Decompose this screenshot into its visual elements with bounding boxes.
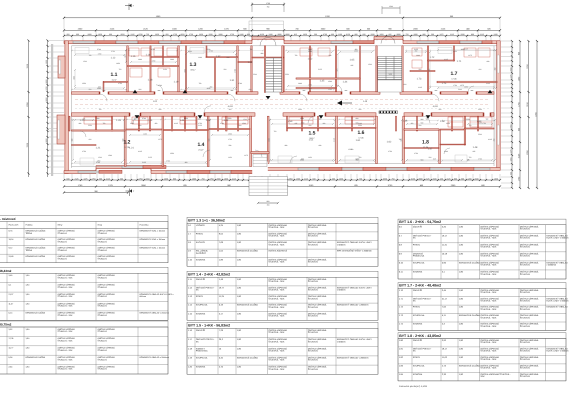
svg-text:ŠTUKOVÁ - SDK: ŠTUKOVÁ - SDK	[268, 297, 285, 300]
svg-text:OMÍTKA VÁPENNÁ ŠTUKOVÁ -: OMÍTKA VÁPENNÁ ŠTUKOVÁ -	[480, 373, 510, 376]
svg-text:900: 900	[173, 177, 176, 180]
svg-text:BYT 1.X - 2+KK - 40,75m2: BYT 1.X - 2+KK - 40,75m2	[0, 323, 12, 327]
svg-text:17,35: 17,35	[451, 78, 457, 81]
svg-text:2750: 2750	[230, 33, 234, 36]
svg-text:2125: 2125	[480, 33, 484, 36]
svg-text:500: 500	[99, 177, 102, 180]
svg-text:KOUPELNA: KOUPELNA	[196, 304, 208, 307]
svg-text:KERAMICKÁ DLAŽBA: KERAMICKÁ DLAŽBA	[237, 357, 259, 360]
svg-text:4125: 4125	[207, 87, 211, 90]
svg-text:1375: 1375	[158, 138, 162, 141]
svg-text:ŠTUKOVÁ - SDK: ŠTUKOVÁ - SDK	[480, 350, 497, 353]
interior wall-hugging dims	[71, 48, 495, 164]
corridor bottom wall	[72, 113, 495, 116]
svg-text:KOMORA: KOMORA	[413, 271, 423, 274]
svg-text:3550: 3550	[478, 108, 482, 111]
svg-text:BYT 1.4 - 2+KK - 42,82m2: BYT 1.4 - 2+KK - 42,82m2	[188, 273, 230, 277]
svg-text:17,35: 17,35	[124, 146, 130, 149]
svg-text:1.6: 1.6	[358, 130, 365, 136]
dimension chain bottom line 2	[63, 184, 501, 188]
dimension chain top line 2	[63, 28, 501, 32]
svg-text:3550: 3550	[88, 124, 92, 127]
svg-text:600: 600	[309, 124, 312, 127]
svg-text:ŠTUKOVÁ - SDK: ŠTUKOVÁ - SDK	[58, 340, 74, 343]
svg-text:ZÁDVEŘÍ: ZÁDVEŘÍ	[413, 339, 422, 342]
svg-text:1.8: 1.8	[422, 140, 429, 146]
svg-text:2750: 2750	[189, 33, 193, 36]
svg-text:2000: 2000	[88, 33, 92, 36]
svg-text:3700: 3700	[97, 48, 101, 51]
svg-text:3000: 3000	[397, 33, 401, 36]
svg-text:SDK: SDK	[480, 375, 485, 378]
svg-text:900: 900	[139, 124, 142, 127]
svg-text:KOMORA: KOMORA	[413, 323, 423, 326]
svg-text:BYT 1.7 - 2+KK - 48,48m2: BYT 1.7 - 2+KK - 48,48m2	[399, 284, 441, 288]
left extension lines	[49, 41, 65, 174]
svg-text:3700: 3700	[139, 33, 143, 36]
svg-text:6,1: 6,1	[9, 284, 12, 287]
svg-text:ŠTUKOVÁ: ŠTUKOVÁ	[98, 232, 108, 235]
svg-text:1375: 1375	[84, 177, 88, 180]
corridor arrow	[337, 101, 342, 106]
interior dimension leader lines	[70, 47, 496, 162]
svg-text:2500: 2500	[461, 33, 465, 36]
svg-text:2750: 2750	[210, 177, 214, 180]
svg-text:3550: 3550	[300, 117, 304, 120]
svg-text:2750: 2750	[151, 48, 155, 51]
svg-text:1.34: 1.34	[343, 81, 348, 84]
svg-text:ŠTUKOVÁ: ŠTUKOVÁ	[308, 243, 319, 246]
dimension chain bottom line 1	[63, 177, 501, 181]
svg-text:450: 450	[440, 177, 443, 180]
svg-text:21,27: 21,27	[198, 149, 204, 152]
svg-text:1,80: 1,80	[26, 293, 30, 296]
svg-text:1375: 1375	[509, 150, 512, 154]
svg-text:SPOLEČNÉ PROSTORY - místností: SPOLEČNÉ PROSTORY - místností	[0, 217, 16, 221]
svg-text:2125: 2125	[142, 161, 146, 164]
svg-text:21,17: 21,17	[442, 297, 448, 300]
svg-text:ŠTUKOVÁ: ŠTUKOVÁ	[520, 367, 531, 370]
windows on top wall	[73, 41, 492, 44]
svg-text:600: 600	[109, 33, 112, 36]
svg-text:2750: 2750	[139, 177, 143, 180]
corridor top wall	[72, 92, 495, 94]
room area sublabels	[111, 69, 457, 152]
svg-text:1.12: 1.12	[111, 57, 116, 60]
svg-text:600: 600	[404, 83, 407, 86]
svg-text:2500: 2500	[371, 33, 375, 36]
svg-text:1,80: 1,80	[26, 302, 30, 305]
svg-text:750: 750	[392, 177, 395, 180]
svg-text:ŠTUKOVÁ - SDK: ŠTUKOVÁ - SDK	[58, 349, 74, 352]
outer wall bottom band	[64, 166, 500, 174]
svg-text:1050: 1050	[308, 156, 312, 159]
bottom extension lines	[64, 174, 500, 179]
svg-text:1.19: 1.19	[174, 81, 179, 84]
door direction triangles	[133, 90, 493, 119]
svg-text:KOUPELNA: KOUPELNA	[413, 365, 425, 368]
svg-text:1500: 1500	[83, 60, 87, 63]
svg-text:ŠTUKOVÁ: ŠTUKOVÁ	[98, 368, 108, 371]
svg-text:600: 600	[331, 33, 334, 36]
svg-text:3000: 3000	[458, 88, 462, 91]
svg-text:1,80: 1,80	[26, 284, 30, 287]
svg-text:ŠTUKOVÁ - SDK: ŠTUKOVÁ - SDK	[58, 295, 74, 298]
dimension bracket entrance bay 2	[382, 5, 400, 14]
svg-text:ŠTUKOVÁ - SDK: ŠTUKOVÁ - SDK	[58, 286, 74, 289]
svg-text:750: 750	[469, 124, 472, 127]
svg-text:17,35: 17,35	[423, 146, 429, 149]
svg-text:ŠTUKOVÁ - SDK: ŠTUKOVÁ - SDK	[480, 237, 497, 240]
svg-text:1.52: 1.52	[308, 58, 313, 61]
svg-text:3700: 3700	[323, 33, 327, 36]
svg-text:KOMORA: KOMORA	[196, 366, 206, 369]
entrance door arcs bay 1	[260, 38, 268, 46]
svg-text:KERAMICKÁ DLAŽBA: KERAMICKÁ DLAŽBA	[459, 262, 481, 265]
svg-text:KERAMICKÝ OBKLAD v 2000mm: KERAMICKÝ OBKLAD v 2000mm	[337, 304, 369, 307]
svg-text:500: 500	[429, 156, 432, 159]
svg-text:ŠTUKOVÁ: ŠTUKOVÁ	[308, 226, 319, 229]
svg-text:1700: 1700	[266, 2, 270, 5]
svg-text:KERAMICKÁ DLAŽBA: KERAMICKÁ DLAŽBA	[459, 314, 481, 317]
svg-text:PRACOVNA: PRACOVNA	[196, 350, 208, 353]
svg-text:ŠTUKOVÁ - SDK: ŠTUKOVÁ - SDK	[268, 315, 285, 318]
svg-text:500: 500	[224, 68, 227, 71]
svg-text:1.7: 1.7	[451, 71, 458, 77]
outer wall top inner face	[72, 45, 498, 47]
interior door arcs	[80, 85, 474, 163]
svg-text:500: 500	[419, 124, 422, 127]
entrance door arcs bay 2	[381, 37, 388, 44]
svg-text:2350: 2350	[339, 177, 343, 180]
svg-text:ŠTUKOVÁ: ŠTUKOVÁ	[98, 295, 108, 298]
corridor dashed ceiling lines	[75, 99, 490, 101]
svg-text:ŠTUKOVÁ: ŠTUKOVÁ	[98, 340, 108, 343]
svg-text:-0,020: -0,020	[227, 105, 234, 108]
svg-text:ŠTUKOVÁ: ŠTUKOVÁ	[308, 359, 319, 362]
svg-text:600: 600	[356, 117, 359, 120]
svg-text:600: 600	[313, 177, 316, 180]
outer wall top band	[64, 37, 500, 44]
svg-text:11,47: 11,47	[111, 79, 117, 82]
level marker bottom	[126, 189, 136, 197]
svg-text:900: 900	[421, 159, 424, 162]
svg-text:ŠTUKOVÁ: ŠTUKOVÁ	[308, 368, 319, 371]
svg-text:750: 750	[202, 177, 205, 180]
svg-text:KOUPELNA: KOUPELNA	[413, 262, 425, 265]
svg-text:2350: 2350	[289, 177, 293, 180]
svg-text:600mm: 600mm	[140, 295, 147, 298]
svg-text:ŠTUKOVÁ - SDK: ŠTUKOVÁ - SDK	[480, 246, 497, 249]
svg-text:v 600mm: v 600mm	[337, 289, 346, 292]
svg-text:KERAMICKÝ OBKLAD v 2000mm: KERAMICKÝ OBKLAD v 2000mm	[140, 356, 170, 359]
svg-text:600: 600	[67, 177, 70, 180]
svg-text:POKOJ: POKOJ	[196, 233, 203, 236]
svg-text:ŠTUKOVÁ: ŠTUKOVÁ	[520, 291, 531, 294]
svg-text:825: 825	[389, 33, 392, 36]
svg-text:500: 500	[120, 177, 123, 180]
svg-text:ŠTUKOVÁ - SDK: ŠTUKOVÁ - SDK	[480, 273, 497, 276]
svg-text:500: 500	[159, 108, 162, 111]
door jamb marks	[99, 92, 491, 117]
svg-text:17,35: 17,35	[9, 337, 14, 340]
svg-text:1.31: 1.31	[230, 79, 235, 82]
svg-text:150: 150	[267, 204, 270, 207]
svg-text:KERAMICKÝ OBKLAD: KERAMICKÝ OBKLAD	[546, 306, 568, 309]
svg-text:2000: 2000	[217, 177, 221, 180]
svg-text:10,77: 10,77	[9, 347, 14, 350]
svg-text:1200: 1200	[98, 156, 102, 159]
svg-text:19,17: 19,17	[442, 234, 448, 237]
svg-text:2125: 2125	[414, 48, 418, 51]
staircase 2	[378, 57, 402, 93]
svg-text:KOMORA: KOMORA	[413, 373, 423, 376]
svg-text:POKOJ: POKOJ	[196, 295, 203, 298]
svg-text:ŠTUKOVÁ: ŠTUKOVÁ	[308, 280, 319, 283]
door width dims	[103, 89, 489, 121]
svg-text:OBÝVACÍ POKOJ +: OBÝVACÍ POKOJ +	[196, 287, 215, 290]
svg-text:ŠTUKOVÁ: ŠTUKOVÁ	[520, 246, 531, 249]
svg-text:ŠTUKOVÁ: ŠTUKOVÁ	[98, 330, 108, 333]
svg-text:1750: 1750	[45, 87, 48, 91]
svg-text:3700: 3700	[207, 48, 211, 51]
svg-text:POKOJ: POKOJ	[413, 306, 420, 309]
svg-text:OBÝVACÍ POKOJ +: OBÝVACÍ POKOJ +	[196, 338, 215, 341]
svg-text:1375: 1375	[440, 33, 444, 36]
svg-text:ŠTUKOVÁ: ŠTUKOVÁ	[520, 264, 531, 267]
svg-text:350: 350	[166, 33, 169, 36]
svg-text:ŠTUKOVÁ: ŠTUKOVÁ	[308, 297, 319, 300]
svg-text:KOMORA: KOMORA	[196, 258, 206, 261]
svg-text:900: 900	[421, 118, 424, 121]
svg-text:ŠTUKOVÁ - SDK: ŠTUKOVÁ - SDK	[268, 340, 285, 343]
svg-text:1750: 1750	[228, 138, 232, 141]
svg-text:ŠTUKOVÁ - SDK: ŠTUKOVÁ - SDK	[480, 367, 497, 370]
svg-text:ŠTUKOVÁ - SDK: ŠTUKOVÁ - SDK	[58, 314, 74, 317]
svg-text:1750: 1750	[173, 33, 177, 36]
svg-text:750: 750	[99, 108, 102, 111]
kitchen counters	[84, 117, 492, 127]
svg-text:1.16: 1.16	[146, 54, 151, 57]
svg-text:LOŽNICE: LOŽNICE	[196, 224, 206, 227]
svg-text:2350: 2350	[303, 33, 307, 36]
svg-text:2000: 2000	[192, 177, 196, 180]
svg-text:TŘENÁ: TŘENÁ	[26, 232, 33, 235]
svg-text:2500: 2500	[97, 87, 101, 90]
svg-text:v 600mm: v 600mm	[337, 243, 346, 246]
svg-text:750: 750	[250, 48, 253, 51]
svg-text:11,25: 11,25	[219, 295, 225, 298]
svg-text:900: 900	[471, 33, 474, 36]
svg-text:ŠTUKOVÁ: ŠTUKOVÁ	[98, 240, 108, 243]
svg-text:350: 350	[309, 87, 312, 90]
svg-text:-0,020: -0,020	[432, 105, 439, 108]
svg-text:1200: 1200	[269, 33, 273, 36]
svg-text:ŠTUKOVÁ - SDK: ŠTUKOVÁ - SDK	[268, 235, 285, 238]
room labels bold	[111, 62, 458, 148]
svg-text:1375: 1375	[460, 84, 464, 87]
svg-text:1050: 1050	[224, 177, 228, 180]
svg-text:850: 850	[267, 200, 270, 203]
svg-text:2000: 2000	[219, 33, 223, 36]
svg-text:2350: 2350	[228, 117, 232, 120]
svg-text:1,80: 1,80	[26, 328, 30, 331]
svg-text:ŠTUKOVÁ: ŠTUKOVÁ	[308, 261, 319, 264]
svg-text:TŘENÁ: TŘENÁ	[26, 249, 33, 252]
svg-text:ŠTUKOVÁ - SDK: ŠTUKOVÁ - SDK	[480, 255, 497, 258]
svg-text:ŠTUKOVÁ: ŠTUKOVÁ	[58, 249, 68, 252]
internal walls top band horizontals	[104, 57, 498, 89]
svg-text:POKOJ: POKOJ	[413, 356, 420, 359]
svg-text:ŠTUKOVÁ - SDK: ŠTUKOVÁ - SDK	[480, 264, 497, 267]
svg-text:OBÝVACÍ POKOJ +: OBÝVACÍ POKOJ +	[413, 297, 432, 300]
svg-text:11,47: 11,47	[9, 302, 14, 305]
svg-text:19,16: 19,16	[9, 238, 14, 241]
svg-text:ŠTUKOVÁ - SDK: ŠTUKOVÁ - SDK	[268, 368, 285, 371]
svg-text:1.65: 1.65	[350, 59, 355, 62]
svg-text:v 2000mm: v 2000mm	[546, 264, 556, 267]
svg-text:11,63: 11,63	[442, 356, 448, 359]
svg-text:2500: 2500	[253, 73, 257, 76]
svg-text:21,27: 21,27	[9, 293, 14, 296]
svg-text:600: 600	[479, 68, 482, 71]
svg-text:1.21: 1.21	[129, 147, 134, 150]
svg-text:1050: 1050	[461, 48, 465, 51]
svg-text:750: 750	[119, 68, 122, 71]
svg-text:ŠTUKOVÁ: ŠTUKOVÁ	[520, 237, 531, 240]
svg-text:17,35: 17,35	[358, 137, 364, 140]
svg-text:ŠTUKOVÁ - SDK: ŠTUKOVÁ - SDK	[58, 276, 74, 279]
svg-text:1.62: 1.62	[387, 141, 392, 144]
svg-text:450: 450	[355, 48, 358, 51]
table BYT 1.4	[187, 271, 378, 320]
svg-text:ŠTUKOVÁ - SDK: ŠTUKOVÁ - SDK	[268, 350, 285, 353]
svg-text:3550: 3550	[383, 177, 387, 180]
svg-text:SPR.VESTAVĚNÉ STĚNY v 2000mm: SPR.VESTAVĚNÉ STĚNY v 2000mm	[337, 250, 372, 253]
dimension chain right 3	[526, 40, 530, 189]
svg-text:ZÁDVEŘÍ: ZÁDVEŘÍ	[413, 289, 422, 292]
svg-text:1,80: 1,80	[26, 365, 30, 368]
svg-text:1500: 1500	[209, 33, 213, 36]
svg-text:825: 825	[294, 33, 297, 36]
svg-text:BYT 1.X - 2+KK - 48,43m2: BYT 1.X - 2+KK - 48,43m2	[0, 269, 12, 273]
svg-text:750: 750	[274, 130, 277, 133]
svg-text:1.33: 1.33	[248, 61, 253, 64]
svg-text:11,31: 11,31	[442, 243, 448, 246]
internal walls top band verticals	[103, 46, 455, 92]
svg-text:ŠTUKOVÁ: ŠTUKOVÁ	[308, 289, 319, 292]
svg-text:1.1: 1.1	[111, 72, 118, 78]
svg-text:1.2: 1.2	[124, 140, 131, 146]
staircase 1	[264, 46, 283, 93]
svg-text:500: 500	[314, 33, 317, 36]
svg-text:500: 500	[359, 108, 362, 111]
svg-text:ŠTUKOVÁ: ŠTUKOVÁ	[308, 235, 319, 238]
svg-text:31,69: 31,69	[9, 255, 14, 258]
svg-text:1375: 1375	[509, 75, 512, 79]
svg-text:ŠTUKOVÁ - SDK: ŠTUKOVÁ - SDK	[58, 330, 74, 333]
svg-text:KERAMICKÁ DLAŽBA: KERAMICKÁ DLAŽBA	[26, 238, 46, 241]
table left A rows	[0, 229, 168, 263]
svg-text:3000: 3000	[45, 80, 48, 84]
svg-text:1050: 1050	[380, 33, 384, 36]
svg-text:350: 350	[356, 159, 359, 162]
svg-text:KUCH. LINKY v 600mm: KUCH. LINKY v 600mm	[546, 299, 568, 302]
svg-text:ŠTUKOVÁ: ŠTUKOVÁ	[308, 340, 319, 343]
svg-text:750: 750	[146, 33, 149, 36]
windows on bottom wall	[78, 165, 490, 173]
dimension chain left outer	[26, 39, 30, 177]
svg-text:1.53: 1.53	[288, 120, 293, 123]
svg-text:450: 450	[229, 108, 232, 111]
svg-text:1,80: 1,80	[26, 337, 30, 340]
svg-text:350: 350	[67, 33, 70, 36]
svg-text:3000: 3000	[45, 139, 48, 143]
svg-text:3700: 3700	[142, 117, 146, 120]
bath fixtures	[129, 48, 490, 77]
extra room dims	[79, 52, 492, 157]
svg-text:ŠTUKOVÁ: ŠTUKOVÁ	[308, 306, 319, 309]
svg-text:BYT 1.5 - 1+KK - 56,83m2: BYT 1.5 - 1+KK - 56,83m2	[188, 324, 230, 328]
svg-text:1.74: 1.74	[442, 82, 447, 85]
svg-text:ŠTUKOVÁ: ŠTUKOVÁ	[308, 315, 319, 318]
svg-text:KERAMICKÝ SOKL v 150mm: KERAMICKÝ SOKL v 150mm	[140, 230, 166, 233]
svg-text:750: 750	[359, 177, 362, 180]
svg-text:ŠTUKOVÁ: ŠTUKOVÁ	[308, 331, 319, 334]
svg-text:Zastavěná plocha(m²) 4,62M: Zastavěná plocha(m²) 4,62M	[399, 385, 427, 388]
svg-text:ŠTUKOVÁ: ŠTUKOVÁ	[98, 314, 108, 317]
svg-text:500: 500	[431, 33, 434, 36]
svg-text:KERAMICKÁ DLAŽBA: KERAMICKÁ DLAŽBA	[26, 312, 46, 315]
svg-text:1050: 1050	[494, 177, 498, 180]
svg-text:1050: 1050	[98, 33, 102, 36]
dimension chain bottom line 3	[63, 190, 129, 194]
dimension chain top line 3	[63, 33, 501, 37]
svg-text:OMÍTKA SÁDROVÁ: OMÍTKA SÁDROVÁ	[268, 250, 287, 253]
table left common title	[0, 215, 168, 221]
internal walls bottom band small room row	[69, 116, 479, 166]
svg-text:Strop: Strop	[98, 224, 103, 227]
svg-text:ŠTUKOVÁ: ŠTUKOVÁ	[520, 375, 531, 378]
dimension chain right 4	[534, 40, 538, 189]
svg-text:KERAMICKÁ DLAŽBA: KERAMICKÁ DLAŽBA	[26, 255, 46, 258]
svg-text:KOUPELNA: KOUPELNA	[413, 314, 425, 317]
svg-text:900: 900	[247, 33, 250, 36]
svg-text:ŠTUKOVÁ: ŠTUKOVÁ	[98, 257, 108, 260]
windows right wall	[497, 55, 499, 73]
svg-text:ŠTUKOVÁ: ŠTUKOVÁ	[58, 232, 68, 235]
svg-text:2125: 2125	[426, 177, 430, 180]
svg-text:4125: 4125	[447, 177, 451, 180]
svg-text:1.32: 1.32	[216, 55, 221, 58]
svg-text:1050: 1050	[45, 60, 48, 64]
svg-text:KERAMICKÁ DLAŽBA: KERAMICKÁ DLAŽBA	[459, 365, 481, 368]
table BYT 1.6	[398, 219, 569, 279]
table BYT 1.8	[398, 333, 569, 381]
svg-text:ŠTUKOVÁ - SDK: ŠTUKOVÁ - SDK	[480, 299, 497, 302]
svg-text:ŠTUKOVÁ - SDK: ŠTUKOVÁ - SDK	[58, 358, 74, 361]
svg-text:1.15: 1.15	[131, 55, 136, 58]
svg-text:3150: 3150	[260, 33, 264, 36]
entrance canopy top bay1	[249, 21, 284, 37]
svg-text:450: 450	[185, 161, 188, 164]
table BYT 1.5	[187, 322, 378, 374]
right extension lines	[501, 41, 511, 188]
svg-text:ŠTUKOVÁ - SDK: ŠTUKOVÁ - SDK	[58, 368, 74, 371]
svg-text:ŠTUKOVÁ: ŠTUKOVÁ	[520, 350, 531, 353]
windows left wall	[59, 60, 61, 74]
svg-text:1.5: 1.5	[309, 131, 316, 137]
